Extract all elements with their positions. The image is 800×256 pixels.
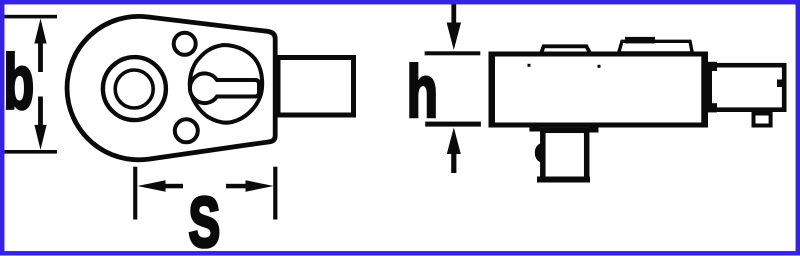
dimension b: upper arrow bbox=[34, 19, 46, 73]
square drive hole: inner circle bbox=[115, 70, 153, 108]
svg-text:S: S bbox=[189, 183, 221, 256]
rivet dot left bbox=[528, 64, 531, 67]
label S bbox=[189, 183, 221, 256]
tang (side view) bbox=[710, 65, 785, 110]
dimension b: lower arrow bbox=[34, 97, 46, 150]
square drive hole: outer circle bbox=[103, 57, 166, 120]
body (side view) bbox=[491, 54, 705, 125]
label b bbox=[4, 38, 35, 125]
dimension S: right tick bbox=[273, 167, 277, 220]
bottom rivet circle bbox=[175, 119, 198, 142]
body left edge thickening bbox=[489, 52, 496, 128]
left cover bump (side view) bbox=[541, 46, 591, 54]
top rivet circle bbox=[174, 33, 196, 55]
tang junction wedge bottom bbox=[706, 103, 718, 112]
dimension S: right arrow bbox=[226, 180, 274, 192]
dimension h: top arrow bbox=[447, 3, 461, 50]
rivet dot right bbox=[598, 65, 601, 68]
ratchet head outline (top view) bbox=[67, 16, 275, 159]
reversing lever boss (egg outline) bbox=[190, 45, 262, 123]
dimension S: left tick bbox=[133, 167, 137, 220]
dimension b: top extension tick bbox=[5, 15, 58, 19]
right bump raised lip bbox=[625, 37, 655, 44]
svg-text:b: b bbox=[4, 38, 35, 125]
svg-text:h: h bbox=[407, 52, 438, 133]
square drive (side view) bbox=[543, 130, 587, 179]
body right edge thickening bbox=[701, 52, 708, 128]
dimension S: left arrow bbox=[138, 180, 184, 192]
dimension b: bottom extension tick bbox=[5, 150, 58, 154]
label h bbox=[407, 52, 438, 133]
reversing lever keyhole bbox=[190, 73, 259, 103]
square drive collar right stub bbox=[589, 127, 599, 133]
square drive collar left stub bbox=[529, 127, 540, 132]
detent ball bbox=[535, 143, 541, 162]
tang (top view) bbox=[278, 58, 354, 116]
dimension h: bottom arrow bbox=[447, 128, 461, 174]
dimension h: bottom extension tick bbox=[425, 122, 481, 127]
square drive bottom edge (thicker) bbox=[537, 177, 590, 183]
dimension h: top extension tick bbox=[425, 51, 481, 55]
tang junction wedge top bbox=[706, 62, 718, 71]
small block under tang bbox=[754, 114, 771, 126]
tang retaining notch bbox=[777, 80, 783, 88]
right cover bump (side view) bbox=[619, 41, 693, 53]
